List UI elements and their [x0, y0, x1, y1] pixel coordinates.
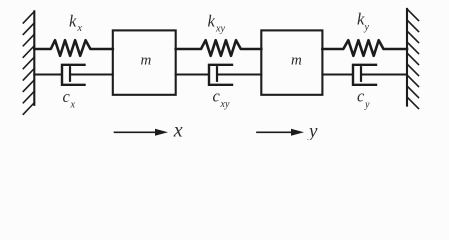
mass block m (right): [261, 30, 322, 94]
svg-text:c: c: [357, 87, 365, 106]
arrow y: [257, 129, 304, 136]
right wall: [407, 9, 419, 109]
left wall: [23, 11, 34, 114]
wire: rod damper cx to left mass: [70, 74, 113, 76]
svg-text:y: y: [364, 22, 370, 33]
svg-text:k: k: [69, 11, 77, 30]
mass block m (left): [113, 30, 176, 94]
svg-text:c: c: [213, 87, 221, 106]
wire: rod right mass to damper cy: [322, 74, 353, 76]
damper cy piston: [360, 67, 362, 81]
damper cx cup: [62, 65, 85, 85]
spring kxy: [176, 40, 262, 56]
damper cy cup: [353, 65, 376, 85]
svg-text:m: m: [291, 53, 302, 69]
svg-text:xy: xy: [215, 24, 225, 35]
svg-text:y: y: [364, 100, 370, 111]
wire: rod damper cy to right wall: [361, 74, 407, 76]
spring ky: [322, 40, 407, 56]
svg-text:xy: xy: [220, 99, 230, 110]
svg-text:x: x: [173, 120, 183, 140]
wire: rod left mass to damper cxy: [176, 74, 209, 76]
svg-text:x: x: [77, 23, 83, 34]
arrow x: [115, 129, 169, 136]
wire: rod wall to damper cx: [34, 74, 62, 76]
svg-text:c: c: [63, 87, 71, 106]
svg-text:y: y: [307, 121, 318, 140]
damper cxy piston: [216, 67, 218, 81]
svg-text:m: m: [141, 53, 152, 69]
wire: rod damper cxy to right mass: [217, 74, 261, 76]
spring kx: [34, 40, 113, 56]
svg-text:k: k: [208, 11, 216, 30]
damper cxy cup: [209, 65, 232, 85]
svg-text:x: x: [70, 100, 76, 111]
damper cx piston: [69, 67, 71, 81]
